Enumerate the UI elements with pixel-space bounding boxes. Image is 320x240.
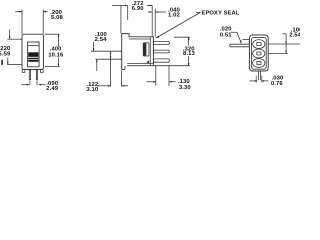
- svg-text:3.10: 3.10: [86, 87, 98, 92]
- svg-text:8.13: 8.13: [183, 51, 195, 57]
- svg-text:2.54: 2.54: [95, 37, 107, 43]
- svg-text:0.76: 0.76: [271, 81, 283, 87]
- svg-text:2.54: 2.54: [289, 33, 300, 39]
- svg-text:0.51: 0.51: [220, 32, 232, 38]
- svg-text:10.16: 10.16: [48, 52, 64, 58]
- svg-text:5.08: 5.08: [51, 15, 63, 21]
- svg-text:6.90: 6.90: [132, 6, 144, 12]
- svg-text:1.02: 1.02: [168, 13, 180, 19]
- svg-text:3.30: 3.30: [179, 85, 191, 91]
- svg-text:2.49: 2.49: [46, 86, 58, 92]
- svg-text:5.59: 5.59: [0, 52, 11, 58]
- svg-text:EPOXY SEAL: EPOXY SEAL: [202, 11, 240, 17]
